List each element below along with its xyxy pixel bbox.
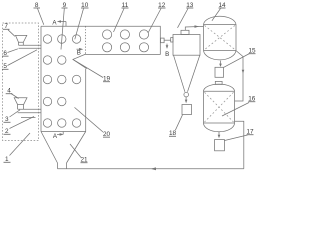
leader line 17 bbox=[225, 135, 248, 141]
leader line 12 bbox=[148, 9, 161, 34]
svg-text:B: B bbox=[77, 49, 81, 56]
svg-text:13: 13 bbox=[186, 2, 194, 9]
flue duct box (parts 11,12) bbox=[86, 26, 161, 54]
section marker A top bbox=[60, 22, 67, 27]
leader line 10 bbox=[75, 9, 84, 40]
flue duct tube circles row 1 bbox=[103, 30, 149, 39]
svg-text:2: 2 bbox=[5, 128, 9, 135]
vessel 16 body bbox=[204, 91, 235, 123]
hopper 4 bbox=[14, 98, 27, 105]
svg-text:8: 8 bbox=[35, 2, 39, 9]
arrowhead into box 18 bbox=[185, 100, 188, 104]
leader line 14 bbox=[212, 9, 221, 21]
vessel 16 top nozzle bbox=[215, 81, 222, 84]
vessel 14 top dome bbox=[204, 16, 237, 24]
hopper 4 stem bbox=[18, 105, 24, 110]
svg-text:5: 5 bbox=[3, 63, 7, 70]
leader line 5 bbox=[8, 50, 38, 66]
box 17 bbox=[215, 140, 225, 151]
svg-text:15: 15 bbox=[248, 48, 256, 55]
vessel 16 packing X bbox=[205, 92, 234, 122]
vessel 14 packing X bbox=[205, 25, 236, 49]
svg-text:4: 4 bbox=[7, 88, 11, 95]
svg-text:11: 11 bbox=[122, 2, 129, 9]
furnace body walls bbox=[41, 26, 86, 131]
svg-text:9: 9 bbox=[63, 2, 67, 9]
fan box 13 bbox=[173, 35, 200, 56]
svg-text:10: 10 bbox=[81, 2, 89, 9]
svg-text:6: 6 bbox=[3, 50, 7, 57]
hopper 7 stem bbox=[19, 42, 24, 45]
section marker B right bbox=[166, 44, 168, 47]
pipe vessel 14 to vessel 16 bbox=[235, 51, 243, 101]
furnace tube circles row 1 bbox=[43, 35, 81, 43]
svg-text:18: 18 bbox=[169, 130, 177, 137]
leader line 3 bbox=[10, 110, 21, 117]
leader line 8 bbox=[38, 9, 44, 25]
leader line 13 bbox=[178, 9, 189, 28]
svg-text:3: 3 bbox=[5, 116, 9, 123]
svg-text:12: 12 bbox=[158, 2, 166, 9]
box 13 inlet flange bbox=[171, 38, 173, 42]
vessel 16 spout bbox=[218, 132, 220, 136]
svg-text:16: 16 bbox=[248, 96, 256, 103]
flue duct tube circles row 2 bbox=[103, 43, 149, 52]
leader line 6 bbox=[8, 49, 18, 53]
duct outlet flange bbox=[161, 38, 165, 43]
arrowhead to vessel 14 bbox=[195, 25, 200, 28]
leader line 7 bbox=[8, 30, 15, 37]
svg-text:14: 14 bbox=[218, 2, 226, 9]
feed duct upper (parts 5,6) bbox=[19, 45, 42, 48]
section marker B left bbox=[77, 48, 81, 50]
vessel 16 top dome bbox=[204, 84, 235, 91]
leader line 21 bbox=[70, 144, 81, 158]
cyclone cone bbox=[174, 55, 200, 92]
pipe 13 to vessel 14 bbox=[185, 26, 203, 30]
svg-text:19: 19 bbox=[103, 76, 111, 83]
leader line 2 bbox=[10, 117, 35, 129]
leader line 4 bbox=[11, 94, 19, 99]
hopper 7 bbox=[16, 35, 27, 42]
furnace tube circles row 5 bbox=[43, 119, 81, 127]
ash hopper spout bbox=[58, 163, 67, 169]
leader line 9 bbox=[61, 9, 64, 50]
svg-text:17: 17 bbox=[246, 129, 254, 136]
svg-text:1: 1 bbox=[5, 156, 9, 163]
burner notch 19 bbox=[73, 54, 87, 69]
cyclone tip circle bbox=[184, 92, 189, 97]
dust box 18 bbox=[182, 105, 192, 115]
furnace tube circles row 3 bbox=[43, 75, 81, 83]
feed duct lower (parts 2,3) bbox=[18, 109, 41, 117]
box 15 bbox=[215, 67, 224, 77]
bottom return line bbox=[58, 168, 244, 170]
vessel 16 bottom dome bbox=[204, 123, 235, 132]
leader line 1 bbox=[10, 133, 31, 156]
furnace tube circles row 4 bbox=[43, 97, 66, 105]
box 13 top stub bbox=[181, 30, 189, 34]
svg-text:A: A bbox=[52, 19, 57, 26]
leader line 16 bbox=[222, 103, 249, 117]
furnace tube circles row 2 bbox=[43, 56, 66, 64]
svg-text:7: 7 bbox=[4, 23, 8, 30]
arrowhead down on pipe bbox=[242, 70, 245, 74]
leader line 19 bbox=[73, 60, 103, 78]
label underlines bbox=[2, 8, 256, 163]
flange connecting line bbox=[164, 39, 171, 41]
pipe vessel 16 to bottom return bbox=[235, 121, 244, 169]
leader line 15 bbox=[224, 54, 250, 68]
svg-text:20: 20 bbox=[103, 131, 111, 138]
cyclone drop line bbox=[185, 97, 187, 101]
arrowhead into box 17 bbox=[218, 135, 221, 139]
arrowhead into box 15 bbox=[219, 64, 222, 67]
vessel 14 bottom dome bbox=[204, 51, 237, 60]
svg-text:B: B bbox=[165, 51, 169, 58]
svg-text:21: 21 bbox=[80, 157, 88, 164]
feed system dashed enclosure 1 bbox=[3, 23, 39, 141]
arrowhead on return line bbox=[151, 167, 157, 170]
section marker A bottom bbox=[57, 132, 63, 135]
vessel 14 spout bbox=[220, 61, 222, 65]
leader line 18 bbox=[175, 115, 182, 131]
furnace ash hopper 21 bbox=[41, 132, 86, 164]
leader line 11 bbox=[114, 9, 125, 33]
leader line 20 bbox=[75, 107, 104, 132]
vessel 14 body bbox=[204, 24, 237, 50]
furnace right wall hidden (dotted) bbox=[85, 26, 87, 54]
